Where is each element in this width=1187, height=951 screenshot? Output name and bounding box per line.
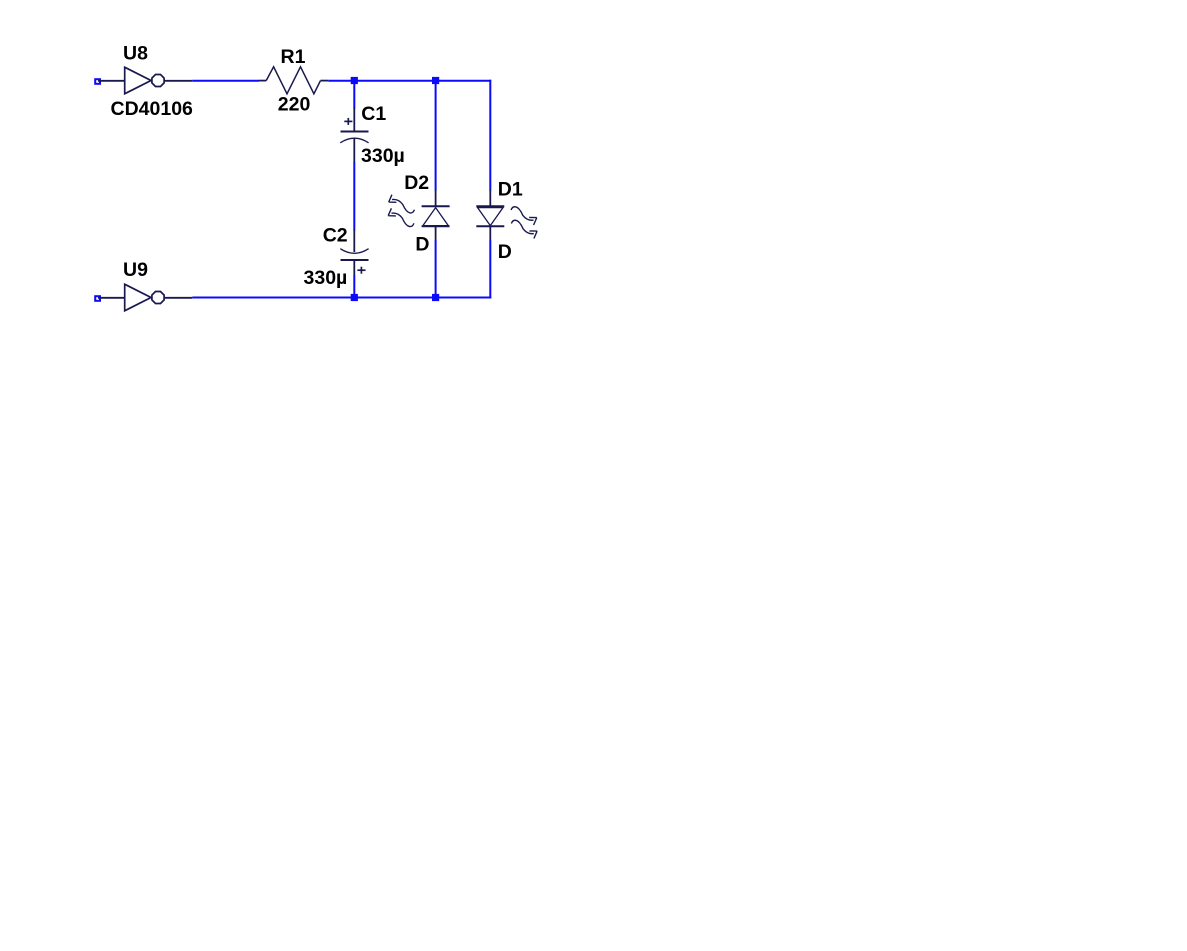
wire D2 to bottom rail: [435, 240, 437, 298]
wire C1 to C2: [353, 162, 355, 231]
input port terminal of U9: [95, 296, 100, 301]
svg-text:R1: R1: [281, 46, 306, 68]
junction node A (top, C branch): [351, 77, 358, 84]
resistor R1: [259, 67, 328, 94]
inverter U8: [125, 67, 193, 94]
svg-text:U9: U9: [123, 259, 148, 281]
svg-text:330µ: 330µ: [304, 267, 348, 289]
svg-text:D1: D1: [498, 178, 523, 200]
junction node B (top, D2 branch): [432, 77, 439, 84]
wire U8 input lead: [98, 80, 125, 82]
LED D1: [476, 190, 504, 240]
svg-text:220: 220: [278, 94, 311, 116]
light arrow 2 of D1: [511, 220, 537, 238]
plus mark of C1: [344, 120, 352, 122]
wire node B down to D2: [435, 81, 437, 191]
wire D1 to bottom rail: [489, 240, 491, 299]
svg-text:C1: C1: [361, 103, 386, 125]
inverter U9: [125, 284, 193, 311]
LED D2: [422, 190, 450, 240]
plus mark of C2: [357, 269, 365, 271]
capacitor C1: [340, 108, 368, 163]
input port terminal of U8: [95, 79, 100, 84]
wire node A down to C1: [353, 81, 355, 109]
svg-text:C2: C2: [323, 225, 348, 247]
junction node C (bottom, C branch): [351, 294, 358, 301]
wire node B to top-right corner: [436, 80, 492, 82]
wire right side vertical (D1 branch top): [489, 80, 491, 191]
light arrow 2 of D2: [388, 208, 414, 226]
svg-text:330µ: 330µ: [361, 145, 405, 167]
svg-text:D: D: [415, 234, 429, 256]
wire node A to node B: [354, 80, 435, 82]
wire U9 input lead: [98, 297, 125, 299]
wire from U8 to R1: [192, 80, 259, 82]
bottom rail wire: [192, 297, 491, 299]
junction node D (bottom, D2 branch): [432, 294, 439, 301]
svg-text:D: D: [498, 241, 512, 263]
wire R1 to node A: [328, 80, 354, 82]
svg-text:D2: D2: [404, 172, 429, 194]
svg-text:CD40106: CD40106: [111, 98, 194, 120]
light arrow 1 of D1: [511, 207, 537, 225]
light arrow 1 of D2: [389, 195, 415, 213]
capacitor C2: [340, 230, 368, 275]
svg-text:U8: U8: [123, 42, 148, 64]
wire C2 to bottom rail: [353, 275, 355, 298]
